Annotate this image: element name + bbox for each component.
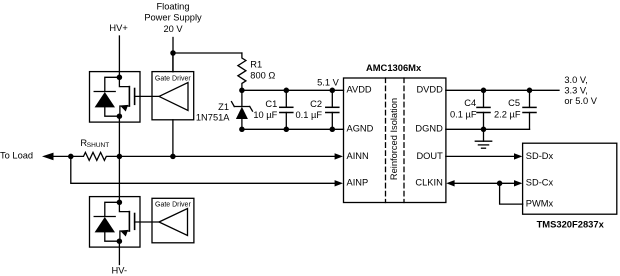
junction C5 top <box>527 88 533 94</box>
capacitor C2 <box>326 90 339 129</box>
diode D2 top lead <box>105 202 120 216</box>
svg-text:C2: C2 <box>310 99 322 109</box>
transistor Q2 gate bar <box>134 214 136 230</box>
svg-text:SD-Cx: SD-Cx <box>526 178 554 188</box>
junction Q1 collector node <box>117 75 123 81</box>
wire phase column <box>118 116 120 202</box>
svg-text:HV+: HV+ <box>109 23 127 33</box>
svg-text:SD-Dx: SD-Dx <box>526 151 554 161</box>
IGBT Q1 outline box <box>90 72 141 123</box>
transistor Q1 emitter arrow <box>119 102 128 111</box>
wire PWMx to CLKIN <box>500 183 523 204</box>
wire DGND rail <box>446 128 530 130</box>
arrow into SD-Cx <box>514 180 522 186</box>
svg-text:Gate Driver: Gate Driver <box>155 75 191 82</box>
isolation barrier dashed line left <box>385 78 387 203</box>
capacitor C1 <box>280 90 293 129</box>
junction C4 top <box>481 88 487 94</box>
junction C2 top <box>330 88 336 94</box>
svg-text:Reinforced Isolation: Reinforced Isolation <box>389 98 399 180</box>
wire HV+ to top IGBT collector <box>118 36 120 77</box>
transistor Q2 channel bar <box>128 212 130 231</box>
svg-text:DGND: DGND <box>415 124 443 134</box>
svg-text:Z1: Z1 <box>218 102 229 112</box>
arrow into CLKIN <box>446 180 454 186</box>
diode D2 triangle <box>95 217 115 232</box>
op-amp U4 TMS320F2837x box <box>523 143 617 214</box>
junction phase node <box>117 154 123 160</box>
junction Q2 collector node <box>117 200 123 206</box>
svg-text:TMS320F2837x: TMS320F2837x <box>537 218 605 229</box>
gate driver U3 box <box>152 198 194 243</box>
svg-text:AINN: AINN <box>347 151 369 161</box>
gate driver U3 triangle <box>159 209 188 236</box>
wire AGND rail <box>242 128 344 130</box>
wire gate driver U2 supply lead <box>172 53 174 72</box>
arrow AINN into chip <box>335 153 343 159</box>
IGBT Q2 outline box <box>90 197 141 248</box>
wire Q2 collector bend <box>119 202 129 211</box>
transistor Q2 emitter arrow <box>119 227 128 236</box>
junction shunt left node <box>68 154 74 160</box>
svg-text:0.1 µF: 0.1 µF <box>295 110 322 120</box>
svg-text:2.2 µF: 2.2 µF <box>494 110 521 120</box>
svg-text:C1: C1 <box>265 99 277 109</box>
svg-text:0.1 µF: 0.1 µF <box>450 110 477 120</box>
wire CLKIN to SD-Cx <box>454 182 514 184</box>
wire AVDD rail <box>242 89 344 91</box>
capacitor C4 <box>477 90 490 129</box>
svg-text:AVDD: AVDD <box>347 85 372 95</box>
svg-text:R1: R1 <box>250 60 262 70</box>
junction C2 bottom <box>330 127 336 133</box>
resistor RSHUNT <box>71 152 335 160</box>
wire gate driver U2 return lead <box>172 120 174 157</box>
diode D1 cathode bar <box>94 91 115 93</box>
svg-text:AMC1306Mx: AMC1306Mx <box>366 62 422 73</box>
svg-text:Floating: Floating <box>156 2 189 12</box>
wire Q2 emitter bend <box>120 231 129 241</box>
diode D2 bottom lead <box>105 232 120 241</box>
svg-text:20 V: 20 V <box>163 24 183 34</box>
junction Q2 emitter node <box>117 238 123 244</box>
transistor Q1 channel bar <box>128 87 130 106</box>
wire to load with arrow <box>53 155 71 157</box>
svg-text:DOUT: DOUT <box>416 151 443 161</box>
ground <box>475 129 491 148</box>
svg-text:5.1 V: 5.1 V <box>317 78 340 88</box>
capacitor C5 <box>523 90 536 129</box>
gate driver U2 triangle <box>159 83 188 111</box>
arrow DOUT into SD-Dx <box>514 153 522 159</box>
svg-text:HV-: HV- <box>112 266 128 276</box>
diode D1 triangle <box>95 92 115 107</box>
junction Q1 emitter node <box>117 113 123 119</box>
isolation barrier dashed line right <box>403 78 405 203</box>
junction C1 bottom <box>284 127 290 133</box>
svg-text:AGND: AGND <box>347 124 374 134</box>
svg-text:800 Ω: 800 Ω <box>250 71 275 81</box>
arrow AINP into chip <box>335 180 343 186</box>
junction C1 top <box>284 88 290 94</box>
svg-text:Gate Driver: Gate Driver <box>155 202 191 209</box>
wire DVDD rail <box>446 89 559 91</box>
wire 20V supply down to gate driver <box>172 38 174 72</box>
svg-text:SHUNT: SHUNT <box>87 142 109 149</box>
junction C4 bottom <box>481 127 487 133</box>
svg-text:3.0 V,: 3.0 V, <box>564 75 587 85</box>
wire Q2 gate <box>135 221 159 223</box>
wire 20V branch to R1 <box>173 52 242 54</box>
wire Q1 collector bend <box>119 77 129 86</box>
zener Z1 <box>232 90 253 129</box>
svg-text:DVDD: DVDD <box>416 85 443 95</box>
junction CLKIN-PWM node <box>497 181 503 187</box>
diode D2 cathode bar <box>94 216 115 218</box>
svg-text:10 µF: 10 µF <box>253 110 277 120</box>
wire DOUT to SD-Dx <box>446 155 515 157</box>
svg-text:or 5.0 V: or 5.0 V <box>564 96 597 106</box>
transistor Q1 gate bar <box>134 89 136 105</box>
wire Q1 emitter bend <box>120 106 129 116</box>
op-amp U1 AMC1306Mx box <box>344 78 446 203</box>
diode D1 top lead <box>105 77 120 91</box>
svg-text:AINP: AINP <box>347 178 369 188</box>
gate driver U2 box <box>152 72 194 120</box>
wire Q1 gate <box>135 95 159 97</box>
svg-text:3.3 V,: 3.3 V, <box>564 86 587 96</box>
resistor R1 <box>238 53 246 90</box>
wire AINP from shunt left <box>71 156 335 183</box>
svg-text:C5: C5 <box>508 98 520 108</box>
svg-text:CLKIN: CLKIN <box>415 178 442 188</box>
svg-text:PWMx: PWMx <box>526 198 554 208</box>
diode D1 bottom lead <box>105 107 120 116</box>
svg-text:To Load: To Load <box>0 151 33 161</box>
junction Z1 anode <box>239 127 245 133</box>
wire Q2 emitter to HV- <box>118 241 120 264</box>
junction driver return node <box>170 154 176 160</box>
svg-text:C4: C4 <box>464 98 476 108</box>
junction R1-Z1 <box>239 88 245 94</box>
junction 20V branch <box>170 50 176 56</box>
svg-text:Power Supply: Power Supply <box>144 13 202 23</box>
svg-text:1N751A: 1N751A <box>196 113 230 123</box>
